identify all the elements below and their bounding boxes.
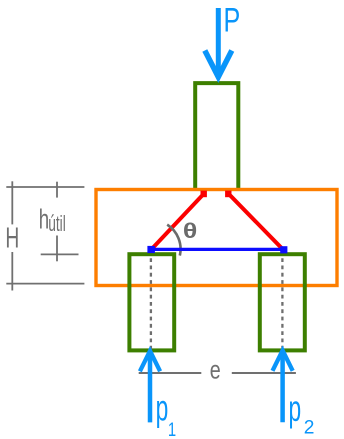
svg-text:e: e — [210, 355, 221, 384]
svg-text:P: P — [223, 2, 240, 40]
svg-text:2: 2 — [304, 417, 315, 438]
svg-text:1: 1 — [168, 418, 176, 439]
svg-text:p: p — [156, 387, 169, 429]
svg-text:h: h — [39, 205, 49, 235]
svg-text:H: H — [5, 223, 19, 255]
svg-text:útil: útil — [48, 211, 66, 236]
svg-text:p: p — [288, 387, 301, 429]
svg-text:θ: θ — [183, 220, 197, 244]
